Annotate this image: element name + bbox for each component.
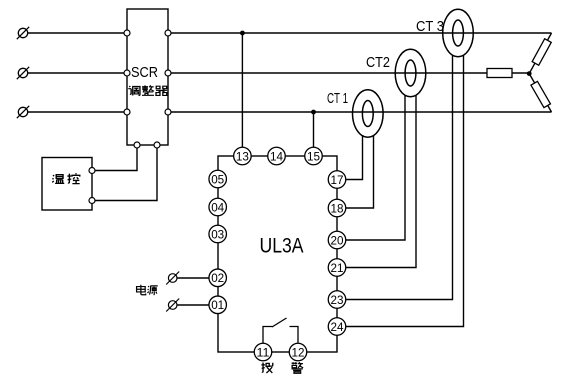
junction node on L3 at terminal 15 drop [311, 110, 316, 115]
SCR pin bottom 2 [154, 142, 160, 148]
temperature controller box (wenkong) [42, 158, 92, 211]
wire CT3 secondary lead 1 to terminal 23 [346, 55, 453, 300]
power input terminal phase 1 (circle-slash) [17, 27, 29, 39]
svg-text:02: 02 [211, 271, 224, 285]
wire diagonal load leg phase 3 to star point [529, 74, 551, 112]
SCR pin right 3 [165, 109, 171, 115]
wire SCR bottom pin 2 to temperature controller bottom [95, 145, 158, 201]
resistor R3 (phase 3 load, slanted) [531, 81, 550, 107]
SCR pin left 2 [124, 70, 130, 76]
junction node on L1 at terminal 13 drop [240, 31, 245, 36]
temperature controller pin upper [89, 168, 95, 174]
wire CT2 secondary lead 1 to terminal 20 [346, 95, 405, 240]
resistor R1 (phase 1 load, slanted) [532, 39, 551, 65]
terminal 12 [289, 343, 307, 361]
terminal 03 [209, 225, 227, 243]
label 报警 (alarm) [261, 362, 303, 373]
svg-text:17: 17 [331, 173, 344, 187]
wire CT1 secondary lead 2 to terminal 18 [346, 135, 374, 208]
wire power input lower to terminal 01 [177, 304, 209, 306]
svg-text:CT2: CT2 [366, 54, 390, 71]
SCR regulator box U-SCR [127, 9, 168, 145]
resistor R2 (phase 2 load, horizontal) [487, 69, 512, 78]
terminal 23 [328, 291, 346, 309]
svg-text:13: 13 [236, 149, 249, 163]
svg-text:04: 04 [211, 200, 224, 214]
terminal 05 [209, 170, 227, 188]
terminal 20 [328, 231, 346, 249]
svg-text:01: 01 [211, 298, 224, 312]
current transformer CT3 [443, 9, 474, 56]
terminal 24 [328, 318, 346, 336]
terminal 14 [268, 147, 286, 165]
terminal 01 [209, 296, 227, 314]
label 温控 (temperature control) [52, 173, 80, 183]
wire from L3 junction down to terminal 15 [313, 112, 315, 148]
svg-text:12: 12 [292, 345, 305, 359]
svg-text:CT 3: CT 3 [416, 18, 444, 35]
terminal 13 [234, 147, 252, 165]
svg-text:11: 11 [257, 345, 270, 359]
terminal 02 [209, 269, 227, 287]
UL3A monitor box U-UL3A [218, 156, 337, 352]
alarm relay switch contact (inside UL3A) [263, 318, 298, 343]
wire phase L2 left segment (input to SCR) [28, 72, 127, 74]
wire phase L1 right segment (SCR to load, through CT3) [168, 32, 552, 34]
wire diagonal load leg phase 1 to star point [529, 33, 551, 74]
star point node of load [527, 71, 532, 76]
wire SCR bottom pin 1 to temperature controller top [95, 145, 138, 171]
terminal 15 [305, 147, 323, 165]
current transformer CT2 [395, 49, 426, 96]
wire phase L1 left segment (input to SCR) [28, 32, 127, 34]
svg-text:03: 03 [211, 227, 224, 241]
wire phase L3 right segment (SCR to load, through CT1) [168, 111, 552, 113]
wire CT1 secondary lead 1 to terminal 17 [346, 135, 363, 180]
label 电源 (power) [137, 285, 158, 295]
terminal 21 [328, 259, 346, 277]
aux power terminal upper (circle-slash) [166, 272, 179, 285]
wire from L1 junction down to terminal 13 [241, 33, 243, 148]
svg-text:UL3A: UL3A [260, 234, 304, 257]
temperature controller pin lower [89, 198, 95, 204]
SCR pin right 1 [165, 30, 171, 36]
terminal 04 [209, 198, 227, 216]
terminal 18 [328, 199, 346, 217]
terminal 11 [254, 343, 272, 361]
svg-text:SCR: SCR [131, 64, 158, 81]
wire CT3 secondary lead 2 to terminal 24 [346, 55, 464, 327]
svg-text:18: 18 [331, 201, 344, 215]
wire phase L2 right segment (SCR to load resistor, through CT2) [168, 72, 529, 74]
label 调整器 (regulator) [128, 85, 167, 95]
wire power input upper to terminal 02 [177, 277, 209, 279]
svg-text:15: 15 [307, 149, 320, 163]
SCR pin right 2 [165, 70, 171, 76]
svg-text:23: 23 [331, 293, 344, 307]
svg-text:14: 14 [270, 149, 283, 163]
svg-text:21: 21 [331, 261, 344, 275]
wire phase L3 left segment (input to SCR) [28, 111, 127, 113]
svg-text:24: 24 [331, 320, 344, 334]
terminal 17 [328, 171, 346, 189]
SCR pin bottom 1 [134, 142, 140, 148]
wire CT2 secondary lead 2 to terminal 21 [346, 95, 416, 268]
svg-text:20: 20 [331, 233, 344, 247]
SCR pin left 1 [124, 30, 130, 36]
svg-text:05: 05 [211, 172, 224, 186]
aux power terminal lower (circle-slash) [166, 299, 179, 312]
power input terminal phase 3 (circle-slash) [17, 106, 29, 118]
power input terminal phase 2 (circle-slash) [17, 67, 29, 79]
SCR pin left 3 [124, 109, 130, 115]
current transformer CT1 [353, 90, 384, 137]
svg-text:CT 1: CT 1 [327, 90, 348, 107]
